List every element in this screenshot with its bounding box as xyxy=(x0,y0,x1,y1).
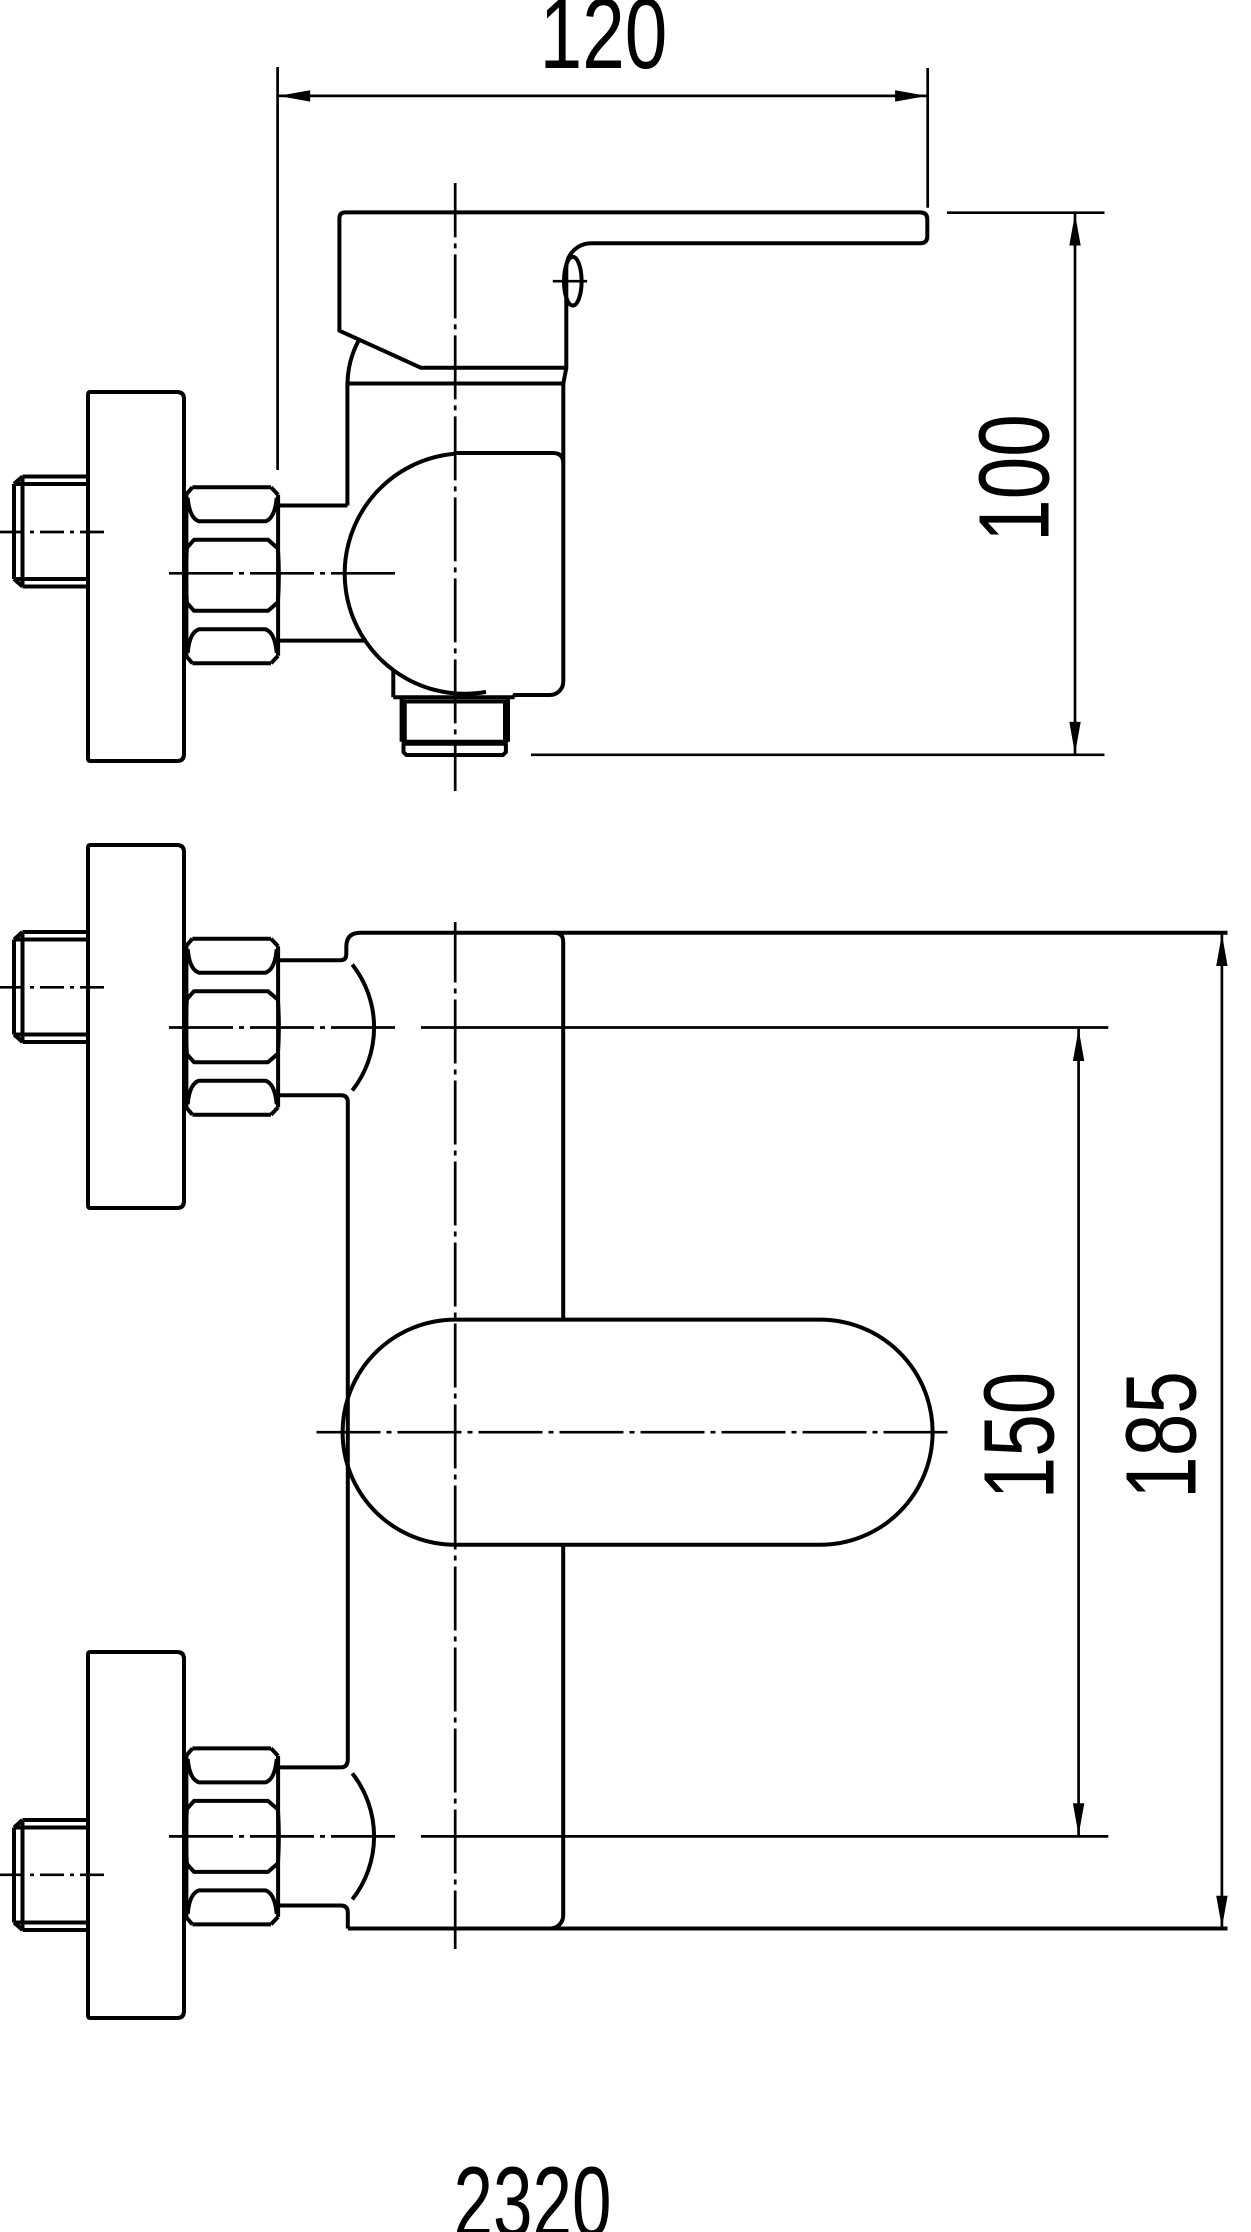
svg-text:120: 120 xyxy=(540,0,668,89)
svg-text:100: 100 xyxy=(958,414,1070,542)
svg-text:185: 185 xyxy=(1105,1371,1217,1499)
svg-text:150: 150 xyxy=(963,1372,1075,1500)
svg-text:2320: 2320 xyxy=(454,2147,612,2232)
